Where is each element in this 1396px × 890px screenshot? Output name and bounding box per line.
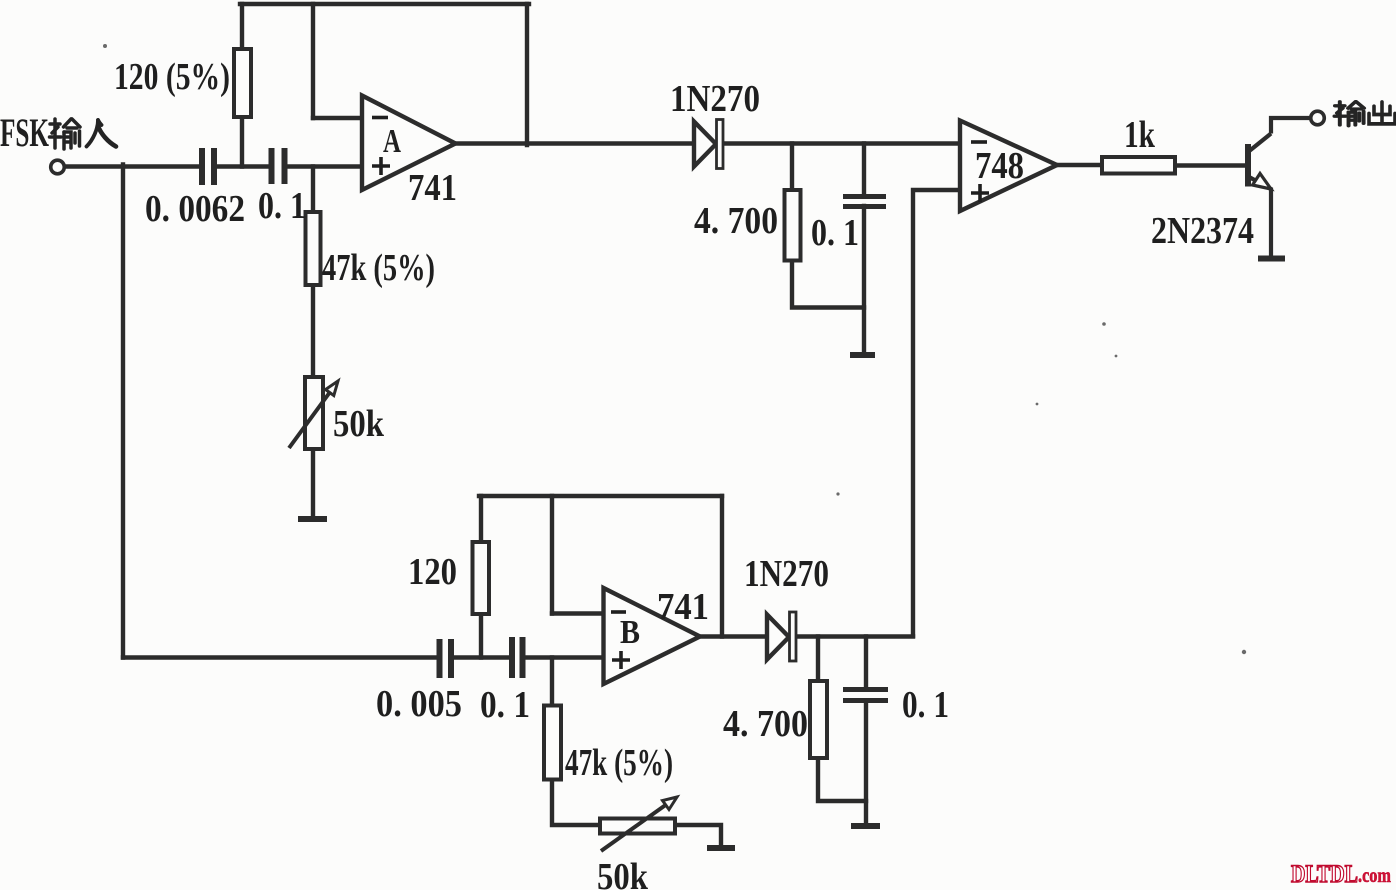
svg-text:748: 748 [975,145,1024,187]
svg-text:120: 120 [408,551,457,593]
svg-text:50k: 50k [333,403,385,445]
svg-text:1N270: 1N270 [670,78,760,120]
svg-text:.com: .com [1358,863,1391,887]
svg-text:50k: 50k [597,856,649,890]
svg-text:741: 741 [408,167,457,209]
svg-text:47k (5%): 47k (5%) [322,247,435,289]
svg-text:2N2374: 2N2374 [1151,210,1254,252]
svg-text:A: A [383,123,401,160]
svg-text:FSK: FSK [0,110,49,155]
svg-text:1N270: 1N270 [744,553,829,595]
svg-text:DLTDL: DLTDL [1291,861,1358,888]
svg-text:0. 1: 0. 1 [902,684,949,726]
svg-text:B: B [620,614,640,651]
svg-text:0. 0062: 0. 0062 [145,188,245,230]
svg-text:0. 1: 0. 1 [480,684,530,726]
svg-text:0. 1: 0. 1 [258,185,306,227]
svg-text:4. 700: 4. 700 [723,703,808,745]
svg-text:0. 005: 0. 005 [376,683,462,725]
svg-text:741: 741 [657,586,709,628]
svg-text:0. 1: 0. 1 [811,212,859,254]
svg-text:4. 700: 4. 700 [694,200,778,242]
svg-text:47k (5%): 47k (5%) [565,742,673,784]
svg-text:1k: 1k [1124,114,1156,156]
svg-text:120 (5%): 120 (5%) [114,56,230,98]
